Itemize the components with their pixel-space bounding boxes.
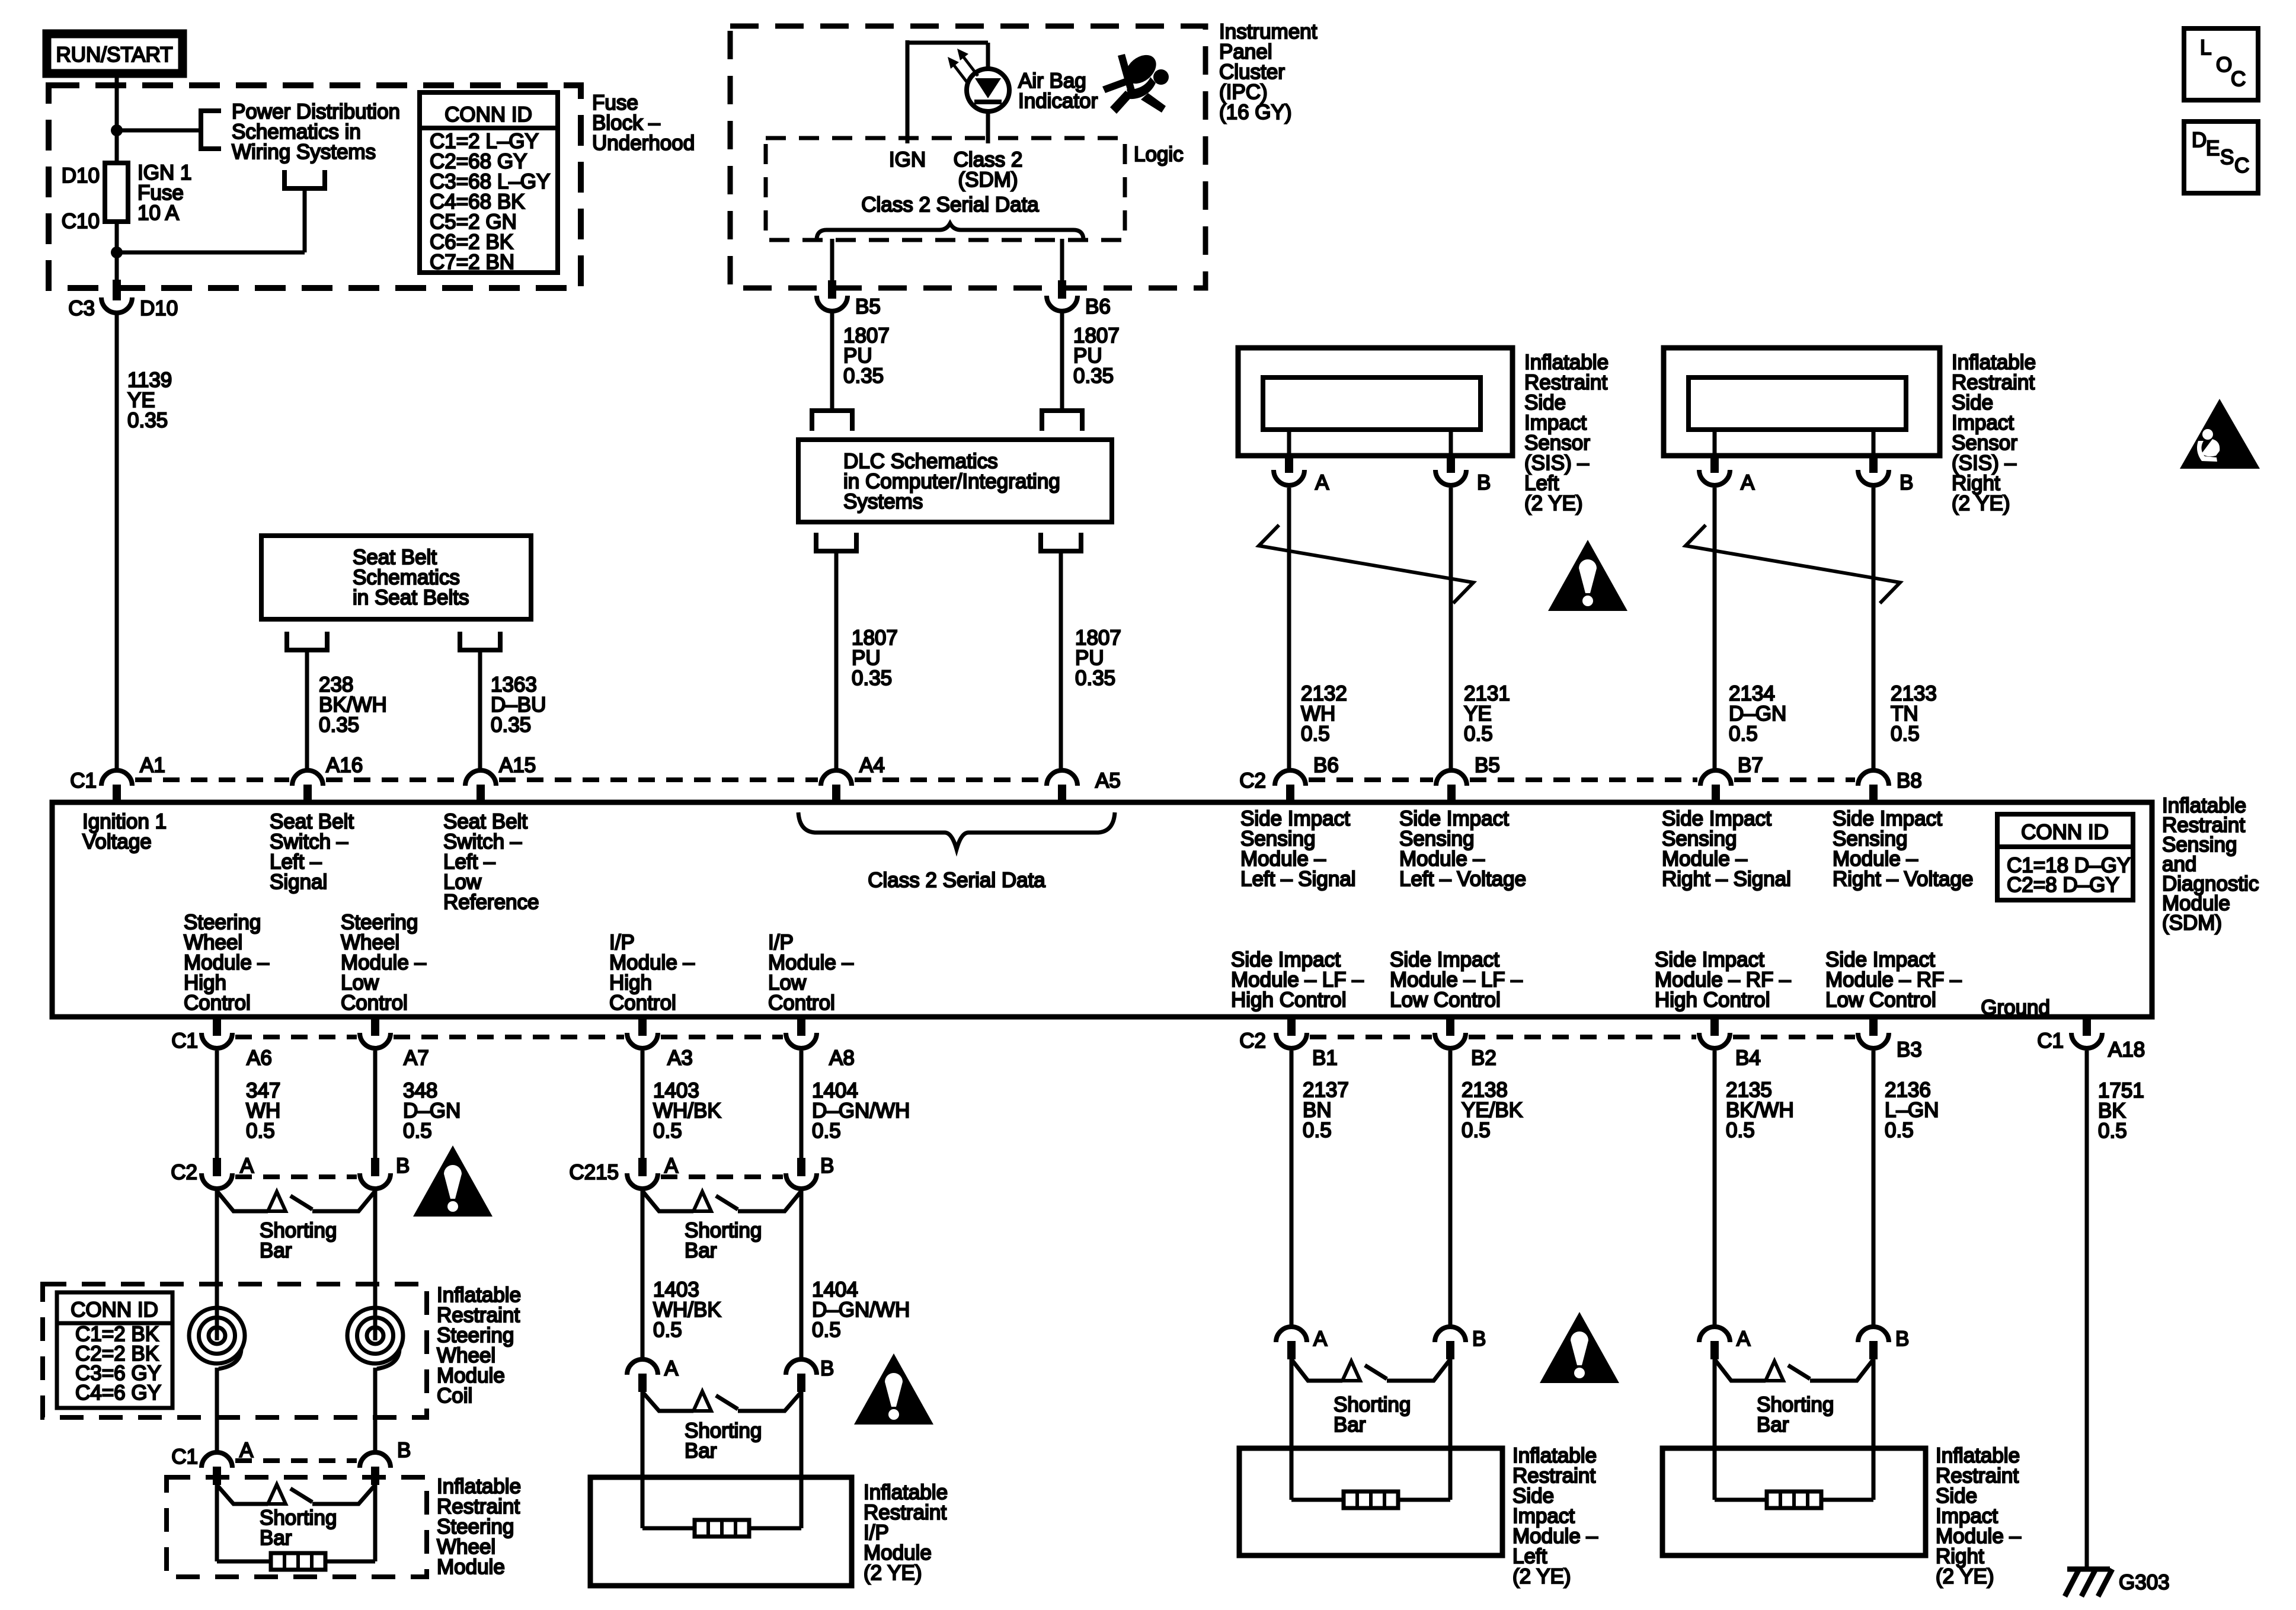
svg-text:C4=6 GY: C4=6 GY — [75, 1381, 161, 1404]
svg-text:B6: B6 — [1313, 754, 1339, 777]
svg-text:C2: C2 — [1239, 769, 1266, 792]
connector C215-B — [797, 1158, 805, 1176]
LED emission arrows — [962, 56, 978, 76]
svg-text:C215: C215 — [569, 1161, 619, 1184]
wire squib steering B — [373, 1485, 378, 1561]
connector C2-A steering — [213, 1158, 221, 1176]
conn-id table coil — [57, 1292, 172, 1408]
svg-text:C1: C1 — [70, 769, 97, 792]
svg-text:A18: A18 — [2108, 1038, 2145, 1061]
connector pin SDM top x=197 — [101, 770, 132, 786]
steering wheel module dashed box — [167, 1477, 427, 1577]
svg-text:High Control: High Control — [1231, 988, 1347, 1012]
connector SIS right B — [1869, 454, 1878, 473]
svg-text:B2: B2 — [1471, 1046, 1496, 1070]
dashed connector line SDM C2 top — [1309, 777, 1433, 782]
shorting bar SIM right — [1715, 1359, 1766, 1381]
connector C2-B steering — [371, 1158, 379, 1176]
off-page bracket below DLC right — [1041, 533, 1081, 551]
coil spiral right — [367, 1327, 383, 1344]
svg-text:C1: C1 — [171, 1445, 198, 1468]
shorting bar steering module — [217, 1485, 268, 1504]
svg-text:B: B — [1900, 471, 1913, 494]
svg-text:Low Control: Low Control — [1390, 988, 1501, 1012]
svg-text:Class 2 Serial Data: Class 2 Serial Data — [868, 869, 1045, 892]
wire squib horizontal steering — [217, 1560, 375, 1564]
connector pin SDM bottom x=1352 — [797, 1017, 805, 1036]
twisted pair marker right SIS — [1686, 525, 1900, 603]
svg-text:B: B — [1477, 471, 1491, 494]
svg-text:0.35: 0.35 — [1073, 364, 1114, 388]
wire 2136 L-GN — [1872, 1051, 1876, 1327]
svg-text:D10: D10 — [140, 297, 178, 320]
svg-text:C7=2 BN: C7=2 BN — [430, 251, 514, 274]
wire 238 BK/WH — [305, 650, 309, 772]
SDM module box — [52, 802, 2152, 1017]
child seat warning triangle — [2180, 399, 2260, 469]
connector pin SDM top x=1792 — [1047, 770, 1077, 786]
svg-text:0.5: 0.5 — [1891, 722, 1920, 745]
conn-id table fuse block — [420, 92, 558, 273]
svg-text:Bar: Bar — [260, 1526, 292, 1550]
svg-text:Class 2 Serial Data: Class 2 Serial Data — [861, 193, 1039, 216]
off-page bracket below DLC left — [816, 533, 856, 551]
svg-text:0.5: 0.5 — [812, 1318, 841, 1342]
connector C3/D10 fuse block output — [113, 280, 121, 300]
svg-text:C2: C2 — [171, 1161, 197, 1184]
svg-text:Bar: Bar — [685, 1239, 717, 1262]
svg-text:B3: B3 — [1897, 1038, 1922, 1061]
svg-text:0.5: 0.5 — [2098, 1119, 2127, 1142]
off-page bracket above DLC left — [812, 411, 852, 431]
wire 1807 PU upper right — [1060, 312, 1064, 411]
IPC logic dashed box — [766, 138, 1125, 240]
instrument panel cluster dashed box — [730, 26, 1205, 288]
wire 2138 YE/BK — [1448, 1051, 1453, 1327]
wire squib I/P B — [800, 1392, 804, 1528]
air bag deployment icon — [1102, 49, 1169, 114]
svg-text:in Seat Belts: in Seat Belts — [353, 586, 469, 609]
svg-text:Right – Voltage: Right – Voltage — [1833, 868, 1973, 891]
svg-text:0.5: 0.5 — [1885, 1119, 1914, 1142]
svg-text:A3: A3 — [667, 1046, 693, 1070]
svg-text:(SDM): (SDM) — [2162, 911, 2222, 934]
connector I/P module A — [627, 1359, 658, 1375]
wire squib SIM-R A — [1713, 1359, 1717, 1500]
warning triangle I/P — [854, 1353, 933, 1425]
dashed connector line C215 — [661, 1174, 783, 1179]
connector pin SDM bottom x=366 — [213, 1017, 221, 1036]
off-page bracket Power Distribution — [201, 111, 221, 149]
squib I/P module — [695, 1520, 749, 1537]
svg-text:C: C — [2234, 154, 2249, 177]
wire 2137 BN — [1290, 1051, 1294, 1327]
svg-text:A4: A4 — [859, 754, 885, 777]
connector SIS left B — [1447, 454, 1455, 473]
wire squib SIM-R B — [1872, 1359, 1876, 1500]
connector pin SDM bottom x=3521 — [2083, 1017, 2091, 1036]
wire B5 inside IPC — [830, 239, 834, 290]
svg-text:Systems: Systems — [843, 490, 923, 513]
wire 1751 BK ground — [2085, 1051, 2089, 1569]
svg-text:0.35: 0.35 — [1075, 667, 1115, 690]
node junction dot lower — [111, 247, 123, 258]
svg-text:C1: C1 — [2037, 1029, 2064, 1052]
svg-text:High Control: High Control — [1655, 988, 1770, 1012]
svg-text:B6: B6 — [1085, 295, 1111, 318]
connector pin SDM top x=519 — [292, 770, 323, 786]
wire steering B to coil — [373, 1190, 378, 1307]
svg-text:0.35: 0.35 — [491, 713, 531, 737]
node junction dot upper — [111, 124, 123, 136]
svg-text:0.35: 0.35 — [843, 364, 884, 388]
svg-text:(2 YE): (2 YE) — [1524, 492, 1583, 515]
svg-text:Left – Voltage: Left – Voltage — [1399, 868, 1526, 891]
svg-text:CONN ID: CONN ID — [445, 103, 532, 126]
svg-text:RUN/START: RUN/START — [56, 43, 172, 66]
side impact module left box — [1239, 1448, 1502, 1555]
svg-text:O: O — [2216, 53, 2232, 76]
svg-text:Control: Control — [768, 991, 835, 1014]
svg-text:D10: D10 — [62, 164, 100, 187]
svg-text:Low Control: Low Control — [1825, 988, 1936, 1012]
svg-text:L: L — [2200, 36, 2211, 59]
warning triangle SIS — [1548, 540, 1627, 611]
squib side impact module right — [1767, 1491, 1821, 1508]
svg-text:Control: Control — [609, 991, 676, 1014]
svg-text:0.5: 0.5 — [1301, 722, 1330, 745]
wire squib SIM-L A — [1290, 1359, 1294, 1500]
svg-text:B: B — [396, 1154, 410, 1177]
svg-text:Coil: Coil — [437, 1384, 472, 1407]
svg-text:A: A — [240, 1154, 254, 1177]
wire squib I/P A — [641, 1392, 645, 1528]
svg-text:A8: A8 — [829, 1046, 855, 1070]
svg-text:Right – Signal: Right – Signal — [1662, 868, 1791, 891]
svg-text:Control: Control — [184, 991, 251, 1014]
svg-text:A1: A1 — [140, 754, 165, 777]
svg-text:G303: G303 — [2119, 1571, 2170, 1594]
power feed RUN/START tag — [47, 34, 183, 73]
svg-text:Wiring Systems: Wiring Systems — [232, 140, 376, 164]
svg-text:0.5: 0.5 — [812, 1119, 841, 1142]
svg-text:B: B — [1895, 1327, 1909, 1350]
svg-text:B4: B4 — [1735, 1046, 1761, 1070]
wire 1403 WH/BK upper — [641, 1051, 645, 1159]
dashed connector line SDM C2 bottom — [1310, 1035, 1432, 1039]
ground symbol G303 — [2067, 1567, 2110, 1572]
wire 2132 WH — [1287, 488, 1291, 772]
connector pin SDM top x=2449 — [1436, 770, 1467, 786]
connector C1-B steering module — [360, 1452, 391, 1468]
side impact module right box — [1662, 1448, 1926, 1555]
connector SIS right A — [1710, 454, 1719, 473]
svg-text:A5: A5 — [1095, 769, 1121, 792]
wire B6 inside IPC — [1060, 239, 1064, 290]
svg-text:B5: B5 — [1475, 754, 1500, 777]
svg-text:Bar: Bar — [1757, 1413, 1789, 1436]
wire 2135 BK/WH — [1713, 1051, 1717, 1327]
svg-text:C3: C3 — [68, 297, 95, 320]
svg-text:A7: A7 — [404, 1046, 429, 1070]
I/P module box — [590, 1477, 852, 1586]
dashed connector line SDM C1 bottom — [235, 1035, 357, 1039]
SIS left internal wires — [1287, 430, 1291, 457]
wire 1807 PU lower right — [1059, 551, 1063, 772]
svg-text:A: A — [1313, 1327, 1328, 1350]
svg-text:A: A — [239, 1439, 254, 1462]
warning triangle steering — [413, 1145, 493, 1217]
shorting bar I/P module — [642, 1392, 693, 1411]
wire 2133 TN — [1872, 488, 1876, 772]
wire 1139 YE ignition to SDM — [115, 313, 119, 772]
svg-text:0.5: 0.5 — [1726, 1119, 1755, 1142]
svg-text:0.5: 0.5 — [653, 1119, 682, 1142]
connector pin SDM top x=2177 — [1275, 770, 1306, 786]
airbag indicator lamp LED circle — [967, 69, 1009, 111]
shorting bar C215 — [642, 1191, 693, 1211]
wire squib horizontal I/P — [642, 1526, 801, 1531]
connector C1-A steering module — [202, 1452, 232, 1468]
wire squib SIM-L B — [1448, 1359, 1453, 1500]
svg-text:A15: A15 — [499, 754, 536, 777]
DESC reference box — [2184, 121, 2258, 193]
wire coil B down — [373, 1368, 378, 1452]
svg-text:Bar: Bar — [685, 1439, 717, 1462]
brace class 2 serial data (SDM) — [798, 812, 1115, 849]
shorting bar SIM left — [1291, 1359, 1342, 1381]
svg-text:0.5: 0.5 — [246, 1119, 275, 1142]
coil dashed box (steering wheel module coil) — [43, 1284, 427, 1417]
svg-text:Logic: Logic — [1134, 143, 1184, 166]
dashed connector line SDM C1 top — [135, 777, 289, 782]
connector SIS left A — [1285, 454, 1293, 473]
connector pin SDM top x=3161 — [1858, 770, 1889, 786]
svg-text:0.35: 0.35 — [127, 409, 168, 432]
squib steering wheel module — [271, 1553, 325, 1570]
SIS right inner box — [1689, 377, 1906, 430]
svg-text:0.5: 0.5 — [1303, 1119, 1332, 1142]
wire 1403 WH/BK lower — [641, 1190, 645, 1359]
svg-text:10 A: 10 A — [137, 201, 180, 225]
svg-text:A: A — [1737, 1327, 1751, 1350]
svg-text:C: C — [2231, 68, 2246, 91]
connector B5 IPC — [828, 280, 836, 299]
connector pin SDM top x=1411 — [821, 770, 852, 786]
wire branch lower to off-page bracket — [117, 251, 305, 255]
connector I/P module B — [786, 1359, 817, 1375]
svg-text:Left – Signal: Left – Signal — [1240, 868, 1356, 891]
wire 1363 D-BU — [478, 650, 482, 772]
connector pin SDM top x=811 — [465, 770, 496, 786]
svg-text:0.5: 0.5 — [1464, 722, 1493, 745]
svg-text:B: B — [397, 1439, 411, 1462]
wire squib steering A — [215, 1485, 219, 1561]
wire branch to Power Distribution reference — [117, 129, 201, 133]
off-page bracket lower (to Power Distribution) — [284, 170, 325, 188]
LOC reference box — [2184, 28, 2258, 100]
svg-text:Underhood: Underhood — [592, 132, 695, 155]
svg-text:A6: A6 — [247, 1046, 272, 1070]
connector B6 IPC — [1058, 280, 1066, 299]
svg-text:C10: C10 — [62, 210, 100, 233]
svg-text:Reference: Reference — [443, 891, 539, 914]
off-page bracket below seat belt left — [287, 632, 327, 650]
dashed connector line C2 steering — [235, 1174, 357, 1179]
wire steering A to coil — [215, 1190, 219, 1307]
svg-text:B: B — [1472, 1327, 1486, 1350]
svg-text:Signal: Signal — [270, 870, 327, 894]
fuse F1 IGN 1 10A — [105, 163, 128, 222]
connector C215-A — [638, 1158, 647, 1176]
connector pin SDM bottom x=2893 — [1710, 1017, 1719, 1036]
connector pin SDM bottom x=2447 — [1446, 1017, 1454, 1036]
svg-text:A16: A16 — [326, 754, 363, 777]
wire 1807 PU upper left — [830, 312, 834, 411]
svg-text:B1: B1 — [1312, 1046, 1338, 1070]
wire 347 WH — [215, 1051, 219, 1159]
svg-text:B: B — [820, 1357, 834, 1380]
conn-id table SDM — [1997, 814, 2133, 900]
svg-text:(2 YE): (2 YE) — [1952, 492, 2010, 515]
connector pin SDM bottom x=1084 — [638, 1017, 647, 1036]
svg-text:B8: B8 — [1897, 769, 1922, 792]
svg-text:Control: Control — [341, 991, 408, 1014]
coil spiral left — [209, 1327, 225, 1344]
SIS left outer box — [1238, 348, 1512, 456]
SIS right outer box — [1664, 348, 1940, 456]
connector pin SDM bottom x=633 — [371, 1017, 379, 1036]
svg-text:Module: Module — [437, 1555, 505, 1579]
SIS left inner box — [1263, 377, 1480, 430]
wire 2131 YE — [1449, 488, 1453, 772]
svg-text:Voltage: Voltage — [82, 830, 152, 853]
svg-text:0.5: 0.5 — [653, 1318, 682, 1342]
seat belt schematics box — [261, 536, 531, 619]
off-page bracket above DLC right — [1042, 411, 1082, 431]
fuse block dashed box (Fuse Block - Underhood) — [49, 85, 581, 288]
svg-text:0.5: 0.5 — [1729, 722, 1758, 745]
SIS right internal wires — [1713, 430, 1717, 457]
wire LED to logic box — [986, 111, 990, 143]
wire ignition feed vertical from RUN/START through fuse block — [115, 78, 119, 290]
connector pin SDM bottom x=3161 — [1869, 1017, 1878, 1036]
svg-text:(SDM): (SDM) — [958, 168, 1018, 191]
svg-text:B: B — [820, 1154, 834, 1177]
off-page bracket below seat belt right — [460, 632, 500, 650]
svg-text:C2: C2 — [1239, 1029, 1266, 1052]
dashed connector line C1 steering module — [235, 1458, 357, 1463]
svg-text:0.35: 0.35 — [852, 667, 892, 690]
wire 1404 D-GN/WH upper — [800, 1051, 804, 1159]
svg-text:S: S — [2220, 146, 2234, 169]
svg-text:Bar: Bar — [260, 1239, 292, 1262]
wire squib horizontal SIM-L — [1291, 1498, 1450, 1502]
wire IPC internal top — [907, 41, 988, 45]
svg-text:D: D — [2192, 129, 2207, 152]
svg-text:B7: B7 — [1738, 754, 1763, 777]
svg-text:(2 YE): (2 YE) — [864, 1561, 922, 1585]
twisted pair marker left SIS — [1259, 525, 1473, 603]
svg-text:Bar: Bar — [1334, 1413, 1366, 1436]
connector SIM left B — [1435, 1327, 1466, 1342]
svg-text:(2 YE): (2 YE) — [1936, 1565, 1994, 1588]
squib side impact module left — [1344, 1491, 1398, 1508]
connector SIM right A — [1699, 1327, 1730, 1342]
warning triangle SIM — [1540, 1312, 1619, 1383]
wire coil A down — [215, 1368, 219, 1452]
svg-text:(2 YE): (2 YE) — [1512, 1565, 1571, 1588]
connector pin SDM bottom x=2179 — [1287, 1017, 1296, 1036]
wire 1807 PU lower left — [834, 551, 839, 772]
connector SIM left A — [1276, 1327, 1307, 1342]
svg-text:Ground: Ground — [1981, 996, 2050, 1019]
svg-text:CONN ID: CONN ID — [71, 1298, 158, 1321]
svg-text:0.5: 0.5 — [1462, 1119, 1491, 1142]
svg-text:C1: C1 — [171, 1029, 198, 1052]
connector SIM right B — [1858, 1327, 1889, 1342]
svg-text:C2=8 D–GY: C2=8 D–GY — [2007, 873, 2119, 897]
svg-text:Indicator: Indicator — [1018, 89, 1098, 113]
brace class 2 serial data (IPC) — [817, 223, 1083, 239]
wire 348 D-GN — [373, 1051, 378, 1159]
svg-text:CONN ID: CONN ID — [2021, 821, 2109, 844]
svg-text:A: A — [664, 1154, 679, 1177]
wire 2134 D-GN — [1713, 488, 1717, 772]
svg-text:(16 GY): (16 GY) — [1219, 101, 1292, 124]
svg-text:B5: B5 — [855, 295, 881, 318]
svg-text:0.5: 0.5 — [403, 1119, 432, 1142]
svg-text:E: E — [2206, 137, 2220, 160]
wire squib horizontal SIM-R — [1715, 1498, 1873, 1502]
wire 1404 D-GN/WH lower — [800, 1190, 804, 1359]
svg-text:IGN: IGN — [889, 148, 926, 171]
DLC schematics box — [798, 440, 1112, 522]
svg-text:A: A — [664, 1357, 679, 1380]
svg-text:A: A — [1741, 471, 1755, 494]
svg-text:0.35: 0.35 — [319, 713, 359, 737]
svg-text:A: A — [1315, 471, 1329, 494]
shorting bar C2 steering — [217, 1191, 268, 1211]
connector pin SDM top x=2895 — [1700, 770, 1731, 786]
